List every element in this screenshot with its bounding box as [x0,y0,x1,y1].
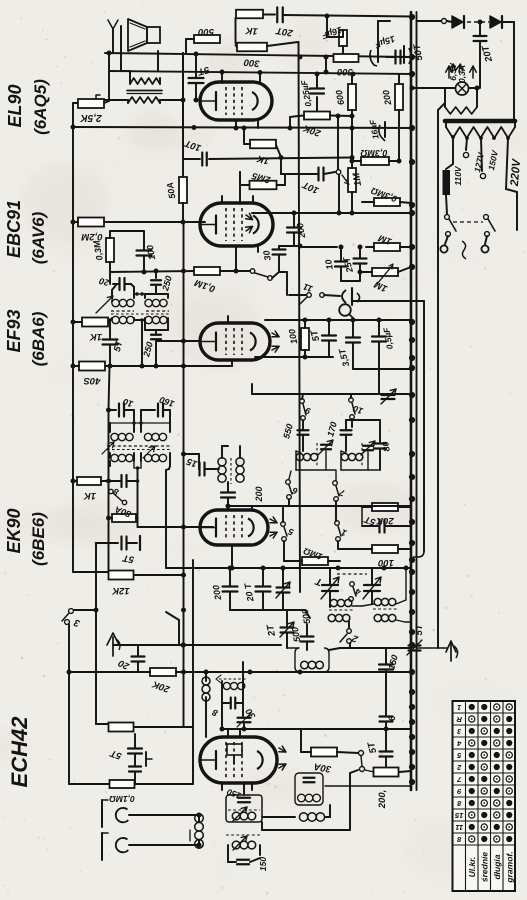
svg-text:5T: 5T [309,328,323,343]
resistor R 2M5 [250,181,277,190]
svg-text:500: 500 [290,626,302,643]
svg-text:20K: 20K [150,678,172,695]
svg-text:2T: 2T [265,623,278,638]
node y568 [228,566,233,571]
capacitor C 550 [298,429,309,431]
wire ebc top leads [221,196,223,203]
svg-text:110V: 110V [453,165,463,186]
svg-text:500: 500 [336,66,353,77]
resistor R 1K top [236,10,263,19]
wire ring to res [365,770,374,772]
switch S10 [349,398,354,403]
node y54 junctions [107,51,112,56]
pot 1M arrow [342,175,348,183]
node primary junction [181,98,186,103]
svg-text:średnie: średnie [480,852,490,883]
wire T2 to EF93 grid [157,340,168,342]
variable C gang1 [322,584,338,586]
wire T3 sec down [141,320,143,366]
resistor R 20K ps [304,112,330,120]
wire tap 127V [466,138,467,150]
switch S mains a [445,215,450,220]
transformer TR core [445,119,515,124]
resistor R 30A [311,748,337,757]
svg-text:3,5T: 3,5T [337,346,352,367]
wire NFB vertical x183 [182,53,184,100]
wire ebc anode [239,172,241,203]
wire pot wiper x338 [337,116,339,169]
wire ant stub [113,644,281,646]
IF T2 top line b [140,410,142,423]
osc input coil L-ek [218,458,226,466]
tube V1 EL90 [200,82,272,120]
wire coil box links [262,816,295,818]
wire grid line y222 [104,221,205,223]
wire D2 to corner [502,21,514,23]
trimmer C 2T [281,626,294,628]
capacitor C 5T ek [96,542,118,544]
svg-text:20: 20 [116,657,132,672]
trimmer C ant ef [382,394,395,396]
capacitor C 6 [385,686,387,715]
resistor R 50A det [79,362,105,371]
mains cord squiggle [462,241,466,259]
osc coil L-MW [296,453,303,460]
tube V5 ECH42 [200,737,277,783]
resistor R 200 ech [374,768,399,777]
resistor R 50A ek [112,514,136,522]
potentiometer R 1M vol [348,168,356,192]
capacitor C 30 ech [242,662,244,716]
wire switch link dashed [453,221,483,223]
node tap dots [451,135,455,139]
wire EF93 bottom lead [231,360,233,366]
node ek grid2 [226,504,231,509]
node rail end [192,783,194,785]
node bus junctions [409,14,415,20]
svg-text:1K: 1K [89,331,102,342]
svg-text:80: 80 [380,441,392,453]
capacitor C 5T ech [128,747,142,749]
resistor R 500 a [194,35,220,43]
capacitor C 0,25uF [310,87,324,89]
svg-text:4: 4 [456,739,462,748]
capacitor C 3,5T [346,336,360,338]
switch S2 [347,629,352,634]
svg-text:0,5µF: 0,5µF [381,326,395,350]
wire grid line EK90 [138,526,214,528]
capacitor C 15 [198,463,200,476]
svg-text:długia: długia [492,854,502,879]
node T3 link [135,292,139,296]
resistor R 500 b [237,43,267,52]
gram coil [195,814,204,823]
IF transformer T3 primary L [131,284,134,287]
wire plug a [445,236,448,244]
capacitor C 170 [341,429,352,431]
gram coil2 [299,813,307,821]
wire y506 [228,505,411,507]
svg-text:EK90: EK90 [4,508,24,553]
wire line y213 [252,212,412,214]
resistor R 100 ef [301,328,309,350]
capacitor C 8 ech [230,698,232,709]
wire sw2 line [329,648,340,650]
capacitor C 20T top [276,7,278,22]
svg-text:15: 15 [454,811,463,820]
switch S9 [300,399,305,404]
capacitor C 200 ek [221,491,235,493]
phono jack P1 [101,800,103,827]
pot tone arrow [377,266,392,284]
wire mains top [417,20,441,22]
svg-text:5T: 5T [108,747,123,762]
resistor R 200 ps [395,84,403,110]
potentiometer R 1M tone2 [372,268,398,276]
node rail dots [181,269,186,274]
IF T2 secondary L [111,454,118,461]
wire lamp line [412,87,455,89]
wire x108 [108,410,110,572]
resistor R 20K ech [150,668,176,676]
svg-text:0,3MΩ: 0,3MΩ [360,148,387,158]
heater arrows [452,64,453,72]
svg-text:20 T: 20 T [242,581,255,603]
svg-text:6: 6 [387,714,398,722]
ant coil box MW [226,795,262,822]
IF T2 primary L [109,423,111,432]
node x97 [94,608,99,613]
svg-text:11: 11 [302,282,314,295]
resistor R 500 ps [334,54,359,62]
svg-text:EL90: EL90 [5,84,25,127]
svg-text:16µF: 16µF [367,118,380,140]
IF T3 arrow [96,296,113,313]
svg-text:20T: 20T [480,43,495,64]
svg-text:3: 3 [72,616,81,628]
wire x179 [178,620,180,645]
svg-text:0,1MΩ: 0,1MΩ [109,794,135,804]
svg-text:5T: 5T [414,623,425,635]
resistor R 2,5K [73,102,78,104]
svg-text:EF93: EF93 [4,309,24,352]
wire coil leads ek [221,446,223,458]
svg-text:15µF: 15µF [373,34,396,51]
svg-text:12K: 12K [111,585,130,596]
wire phones feed [279,271,287,273]
rings link [359,751,364,756]
capacitor C 50T [403,46,405,63]
capacitor C 5T ech2 [385,729,387,750]
capacitor C 15uF [377,47,379,62]
resistor R 100 osc [372,545,398,553]
svg-text:200: 200 [295,222,308,240]
wire bottom links [325,785,411,787]
wire av to pot [294,245,300,247]
capacitor C series [394,51,396,64]
svg-text:(6BE6): (6BE6) [29,512,48,566]
node y320 [303,318,308,323]
wire plug b [485,236,487,244]
tube V3 EF93 [200,323,270,360]
svg-text:100: 100 [145,244,157,261]
IF T2 top line [109,409,117,411]
wire speaker left [120,26,122,71]
IF T2 core dashes [107,445,172,447]
resistor R 1M tone [374,243,400,251]
wire left rail lower [95,543,97,724]
svg-text:150V: 150V [486,148,500,171]
svg-text:220V: 220V [509,158,523,188]
output transformer T-out secondary [130,78,160,84]
wire line y672 [69,671,144,673]
wire osc joins [289,471,291,479]
resistor R 0,3M det [106,238,114,262]
wire T2 sec outer [109,461,111,466]
svg-text:150: 150 [386,654,400,671]
wire x138 [137,481,139,527]
svg-text:1K: 1K [244,24,258,36]
gang link dashed [337,573,367,575]
svg-text:1: 1 [457,703,461,712]
wire cathode line y357 [255,356,333,358]
wire EL90 cathode lead [235,120,237,128]
IF transformer T3 primary R [145,293,168,295]
IF T2 arrows [102,442,114,454]
switch S1 [335,521,340,526]
wire ant line [417,647,443,649]
capacitor C 5T grid [189,77,204,79]
switch S4 [350,582,355,587]
resistor R 0,1M ech [110,780,135,788]
svg-text:200: 200 [254,486,264,502]
wire ebc bottom leads [235,246,237,271]
phones jack PJ [342,290,346,303]
svg-text:8: 8 [211,707,219,718]
tube V2 EBC91 [200,203,273,246]
node rail top [71,125,76,130]
wire audio line y54 [105,53,412,57]
svg-text:Ul.kr.: Ul.kr. [467,857,477,878]
EBC91 diode arrows [246,215,253,220]
IF transformer T3 secondary R [145,316,152,323]
svg-text:(6AQ5): (6AQ5) [31,79,50,135]
capacitor C 5T osc [378,520,380,533]
wire jack to speaker line [108,53,110,100]
capacitor C 200 tun [223,585,238,587]
wire x362 [361,507,363,526]
wire avc y366 [105,365,232,367]
contacts table [453,701,516,891]
capacitor C 80 [374,442,386,444]
svg-text:5T: 5T [366,740,380,755]
wire main rail x183 [183,222,185,727]
resistor R 1M avc [302,557,328,565]
svg-text:200,: 200, [377,790,388,810]
wire bracket x424 [423,301,425,551]
capacitor C 10T nfb [201,153,203,166]
osc coil ech a [202,677,210,685]
svg-text:20K: 20K [301,122,323,139]
capacitor C 200 ebc [287,226,301,228]
svg-text:2: 2 [350,632,360,645]
node EL90 grid [194,98,199,103]
wire EK90 leads [231,545,233,560]
wire right loop x436 [438,103,445,110]
wire T2 down [137,468,139,481]
transformer TR primary [446,127,515,138]
trimmer C 20 ant [132,655,145,657]
svg-text:15: 15 [185,455,199,469]
wire ek90 lead ext [231,560,233,568]
switch S11 av [220,270,250,272]
osc coil L-LW [341,453,348,460]
wire anode line y320 [265,319,411,321]
svg-text:40S: 40S [83,375,102,386]
svg-text:4: 4 [354,586,363,597]
antenna ANT [450,644,452,661]
variable C gang2 [364,584,380,586]
svg-text:5: 5 [286,526,295,537]
tube V4 EK90 [200,510,268,545]
capacitor C 5T ef [322,334,336,336]
svg-text:gramof.: gramof. [505,851,515,883]
capacitor C 30 ebc [273,248,286,250]
wire det line y271 [110,271,194,272]
ant coil box LW [226,834,262,836]
svg-text:1K: 1K [83,490,96,501]
svg-text:EBC91: EBC91 [4,200,24,258]
svg-text:10: 10 [122,396,135,409]
speaker LS [128,19,147,51]
svg-text:550: 550 [281,423,295,440]
wire y231 [110,230,144,232]
wire ech grid top [134,727,136,734]
wire avc line y568 [166,567,411,569]
svg-text:50T: 50T [411,42,425,61]
wire EL90 anode lead [221,72,223,83]
wire ef93 grid [183,340,200,342]
wire tap 220V [506,138,508,189]
svg-text:2: 2 [456,763,462,772]
wire main bus pair [410,12,413,790]
resistor R 600 [348,84,356,110]
switch S mains b [484,215,489,220]
IF T3 core dashes [111,310,134,312]
osc coupling box [295,773,323,805]
svg-text:5T: 5T [121,552,135,565]
node y672 [204,670,209,675]
wire line y369 [353,368,411,370]
svg-text:127V: 127V [472,150,486,173]
wire top B+ line [264,14,275,16]
switch S7 [333,481,338,486]
svg-text:300: 300 [243,56,260,68]
wire x228 corner [235,18,237,43]
capacitor C 20 det [109,272,111,284]
EK90 arrows [270,519,277,523]
heater winding box [444,88,446,107]
capacitor C 5T det [109,319,111,338]
capacitor C 3 ek [120,475,122,487]
wire nfb rail x183 [182,53,184,177]
wire fuse to switch [446,195,447,214]
rectifier D2 [490,16,501,28]
wire tap 110V [452,138,454,164]
switch S5 [281,522,286,527]
capacitor C 250 det b [167,320,169,330]
svg-text:5T: 5T [196,64,211,78]
wire x193 [192,560,194,784]
wire sw3 rail [68,624,70,784]
svg-text:160: 160 [158,395,176,410]
wire HT line y127 [73,127,412,128]
wire dashed diode link [467,21,489,23]
wire screen line x300 [299,42,301,592]
svg-text:(6BA6): (6BA6) [29,311,48,366]
svg-text:600: 600 [334,89,346,106]
capacitor C 100 det [137,249,152,251]
capacitor C 25T [354,257,367,259]
switch S3 [69,609,74,614]
svg-text:200: 200 [381,89,394,107]
wire speaker right [157,51,159,71]
osc coil ech b [221,681,223,729]
svg-text:100: 100 [287,328,299,345]
capacitor C 250 det [155,271,157,278]
trimmer C pad [277,586,290,588]
capacitor C 16uF [339,30,347,46]
wire EL90 screen lead [257,120,259,128]
rectifier D1 [452,16,463,28]
wire sw7 down [335,507,337,521]
wire tone line [300,246,337,248]
resistor R 20K osc [372,503,398,511]
wire y729 [221,728,411,730]
resistor R 50A [179,177,187,203]
IF transformer T3 secondary L [112,316,119,323]
node T2 link top [132,421,136,425]
resistor R 1K det [82,318,108,327]
resistor R 0,3MA [361,157,389,165]
svg-text:11: 11 [455,823,463,832]
wire ech leads [221,783,223,790]
svg-text:10: 10 [352,403,365,416]
resistor R 0,3M b [374,198,400,206]
switch S6 [286,480,291,485]
wire EF93 top lead [227,316,229,323]
resistor R 1K ek [77,477,101,485]
capacitor C 10T vol [317,168,319,181]
ferrite antenna symbol [112,637,114,656]
capacitor C 20T ps [474,35,487,37]
output transformer primary [128,97,160,103]
EF93 arrows [272,333,279,337]
wire tap 150V [481,138,482,171]
ant coil loop [295,648,329,672]
capacitor C 150 b [379,663,393,665]
resistor R osc grid [109,723,134,732]
fuse 110V box [443,170,451,195]
svg-text:500: 500 [197,26,214,37]
jack terminal J1 [108,20,118,29]
indicator Q [339,304,351,316]
switch S phones [307,293,312,298]
svg-text:R: R [456,715,462,724]
heater arrows [448,66,450,78]
svg-text:170: 170 [325,421,339,438]
IF T2 primary R [140,423,142,432]
